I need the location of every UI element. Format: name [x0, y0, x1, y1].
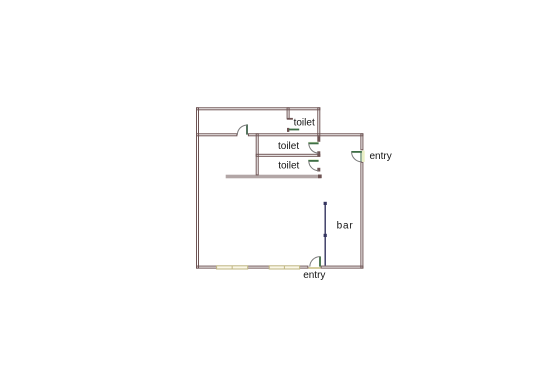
- svg-text:toilet: toilet: [278, 141, 299, 152]
- svg-text:toilet: toilet: [294, 118, 315, 129]
- svg-text:toilet: toilet: [278, 160, 299, 171]
- svg-text:bar: bar: [337, 220, 354, 231]
- svg-text:entry: entry: [370, 151, 392, 162]
- svg-text:entry: entry: [303, 270, 325, 281]
